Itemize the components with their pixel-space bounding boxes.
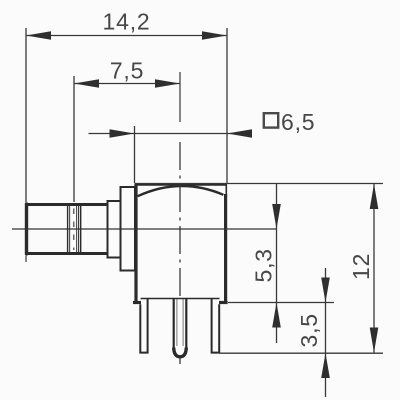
extension line right (x=227): [226, 28, 228, 184]
right leg: [212, 298, 220, 353]
centerline vertical x=180 solid top: [179, 72, 181, 122]
extension line y=353 right: [219, 352, 383, 354]
dimension 14,2: [26, 9, 227, 40]
svg-text:14,2: 14,2: [103, 9, 151, 35]
body block: [133, 184, 228, 304]
extension line x=134.5 for 6,5: [134, 126, 136, 183]
dome arc: [138, 186, 224, 196]
left leg: [140, 298, 147, 353]
stub below jack face: [25, 256, 27, 262]
dimension 3,5: [296, 268, 330, 397]
extension line y=302.5 right: [228, 302, 334, 304]
extension line left (x=26): [25, 28, 27, 202]
flange: [121, 187, 136, 271]
bottom edge: [133, 301, 141, 304]
svg-text:5,3: 5,3: [251, 248, 277, 282]
centerline vertical x=180 dash-dot: [179, 142, 181, 300]
body bottom line between legs: [141, 298, 220, 300]
center pin: [174, 298, 187, 357]
snap-on groove: [67, 206, 69, 252]
svg-text:12: 12: [348, 253, 374, 280]
extension line y=183.5 right: [135, 183, 384, 185]
dimension 12: [348, 184, 378, 353]
svg-text:3,5: 3,5: [296, 313, 322, 347]
ring: [108, 201, 121, 258]
svg-text:6,5: 6,5: [281, 109, 315, 135]
dimension 7,5: [74, 58, 180, 88]
centerline horizontal y=229: [12, 228, 277, 230]
dimension square 6,5: [89, 109, 316, 138]
extension line x=74 for 7,5: [73, 76, 75, 202]
svg-text:7,5: 7,5: [110, 58, 144, 84]
dimension 5,3: [251, 184, 281, 343]
jack cylinder: [26, 203, 108, 255]
